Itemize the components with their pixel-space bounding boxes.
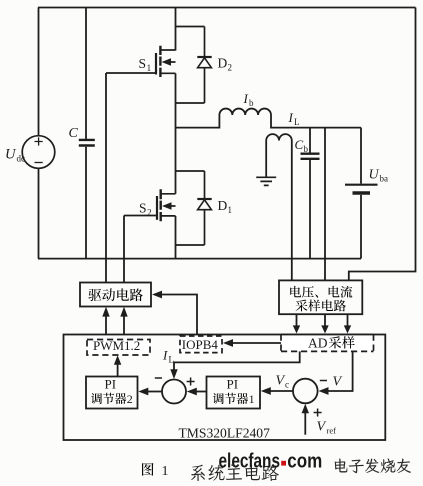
sign plus sum2 <box>314 409 322 417</box>
svg-text:U: U <box>5 147 17 163</box>
wire IL feedback <box>174 351 300 370</box>
svg-text:com: com <box>287 451 322 473</box>
arrow AD to IOPB4 <box>232 342 281 344</box>
arrow sum2 to PI1 <box>270 390 293 392</box>
caption figure number <box>142 463 154 476</box>
wire IL sense tap <box>324 128 326 281</box>
wire right outer return <box>349 8 416 281</box>
caption title <box>191 464 279 481</box>
svg-text:C: C <box>295 137 304 152</box>
svg-text:IOPB4: IOPB4 <box>182 337 219 352</box>
arrow PWM to drive b <box>123 316 125 335</box>
svg-text:PI: PI <box>227 377 239 392</box>
wire bottom negative rail <box>38 258 361 260</box>
AD port box <box>281 335 374 352</box>
svg-text:dc: dc <box>17 154 26 164</box>
label regulator 2 <box>91 393 102 404</box>
label sampling line1 <box>290 286 301 297</box>
wire input cap top <box>85 8 87 140</box>
PI regulator 1 box <box>207 377 261 409</box>
capacitor C <box>79 140 95 146</box>
wire input cap bottom <box>85 147 87 259</box>
arrow sample to AD b <box>324 314 326 326</box>
svg-text:D: D <box>218 198 228 213</box>
wire S2 gate lead <box>124 216 157 283</box>
voltage source Udc <box>22 136 55 169</box>
watermark site name <box>335 459 411 474</box>
arrow PI1 to sum1 <box>196 391 207 393</box>
svg-text:V: V <box>333 375 343 390</box>
wire D2 bottom branch <box>176 102 205 104</box>
battery Uba <box>345 184 378 186</box>
arrow V into sum2 <box>319 387 329 395</box>
svg-text:2: 2 <box>127 392 133 406</box>
wire S2 source <box>175 216 177 259</box>
summing junction 1 <box>162 380 186 404</box>
svg-text:b: b <box>249 98 254 108</box>
PI regulator 2 box <box>86 377 138 409</box>
svg-text:c: c <box>285 380 289 390</box>
svg-text:PI: PI <box>105 377 117 392</box>
inductor Lb <box>176 109 362 128</box>
svg-text:1: 1 <box>162 464 169 479</box>
svg-text:I: I <box>243 91 249 106</box>
PWM1.2 port box <box>87 340 150 356</box>
svg-text:ref: ref <box>327 425 337 435</box>
DSP box TMS320LF2407 <box>64 335 386 441</box>
svg-text:I: I <box>162 348 168 363</box>
inductor sense coil <box>266 134 292 280</box>
wire top positive rail <box>38 7 416 9</box>
svg-text:1: 1 <box>249 392 255 406</box>
wire IOPB4 to drive <box>161 295 197 335</box>
arrow sum1 to PI2 <box>148 391 162 393</box>
wire Cb bottom <box>309 160 311 259</box>
svg-text:U: U <box>369 168 380 183</box>
arrow IL into sum1 <box>170 369 177 379</box>
capacitor Cb <box>301 154 320 159</box>
svg-text:V: V <box>317 419 327 434</box>
wire V feedback <box>327 351 353 391</box>
ground <box>256 177 276 185</box>
wire left source bottom <box>38 168 40 258</box>
svg-text:L: L <box>169 355 175 365</box>
wire S1 drain <box>175 8 177 51</box>
drive circuit box <box>80 283 151 307</box>
label sampling line2 <box>296 300 308 312</box>
sign plus sum1 <box>187 378 195 386</box>
svg-text:2: 2 <box>228 63 233 73</box>
diode D1 <box>197 171 211 245</box>
svg-text:1: 1 <box>228 205 233 215</box>
wire D1 bottom branch <box>176 244 205 246</box>
mosfet S1 <box>156 46 176 77</box>
wire Uba bottom <box>360 195 362 259</box>
svg-text:ba: ba <box>380 174 389 184</box>
svg-text:S: S <box>139 56 147 71</box>
arrow PI2 to PWM <box>117 364 119 377</box>
summing junction 2 <box>293 379 318 404</box>
diode D2 <box>197 27 211 104</box>
sign minus sum2 <box>320 380 327 382</box>
svg-text:b: b <box>304 144 309 154</box>
arrow into drive box <box>152 291 162 299</box>
svg-text:V: V <box>276 374 286 389</box>
svg-text:C: C <box>69 126 79 141</box>
svg-text:elecfans: elecfans <box>219 451 281 473</box>
label drive circuit <box>88 289 101 301</box>
sampling circuit box <box>279 280 362 314</box>
svg-text:TMS320LF2407: TMS320LF2407 <box>179 425 271 440</box>
wire midpoint node <box>175 73 177 194</box>
svg-text:AD: AD <box>308 335 328 350</box>
svg-text:L: L <box>294 117 300 127</box>
svg-text:S: S <box>139 201 147 216</box>
wire left source top <box>38 8 40 136</box>
IOPB4 port box <box>180 336 222 353</box>
watermark elecfans <box>219 451 323 473</box>
wire D1 top branch <box>176 170 205 172</box>
wire D2 top branch <box>176 26 205 28</box>
arrow sample to AD c <box>347 314 349 326</box>
mosfet S2 <box>157 189 176 221</box>
svg-text:PWM1.2: PWM1.2 <box>93 338 140 353</box>
label regulator 1 <box>213 393 224 404</box>
arrow sample to AD a <box>296 314 298 326</box>
arrow Vref into sum2 <box>304 413 306 435</box>
wire Cb top <box>309 128 311 153</box>
svg-text:D: D <box>218 56 228 71</box>
svg-text:1: 1 <box>147 63 152 73</box>
svg-text:I: I <box>288 110 294 125</box>
wire Uba top <box>360 128 362 184</box>
arrow PWM to drive a <box>105 316 107 335</box>
sign minus sum1 <box>155 377 162 379</box>
wire S1 gate lead <box>106 73 156 283</box>
